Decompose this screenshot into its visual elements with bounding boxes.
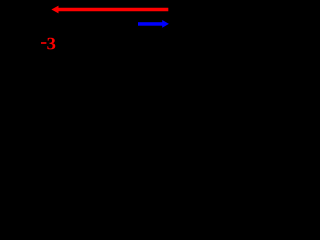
blue arrow pointing right (138, 20, 169, 28)
red arrow pointing left (51, 6, 168, 14)
label -3 minus sign (41, 42, 46, 44)
label -3 digit 3 (Liberation Serif Bold outline) (47, 38, 55, 50)
